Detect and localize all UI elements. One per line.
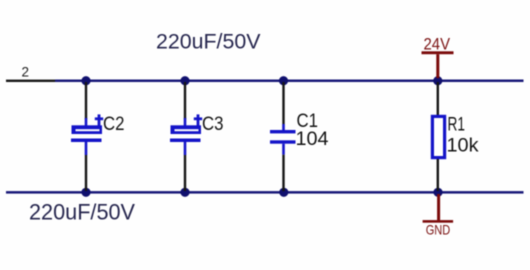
wire: C2 top pin stub (blue)	[85, 118, 88, 126]
wire: R1 top lead (black)	[437, 82, 439, 115]
node: top junction at C2	[81, 76, 90, 85]
GND power bar	[423, 220, 454, 223]
wire: C1 bottom lead (black)	[282, 155, 284, 192]
C3 plus sign	[197, 114, 200, 126]
capacitor C2	[71, 82, 125, 191]
node: top junction at R1 / 24V	[433, 76, 442, 85]
svg-text:GND: GND	[426, 221, 451, 237]
C1 top plate	[270, 130, 296, 133]
wire: C1 top pin stub (blue)	[282, 124, 285, 130]
wire: C3 top pin stub (blue)	[184, 118, 187, 126]
capacitor C3	[170, 82, 224, 191]
wire: C3 bottom lead (black)	[184, 155, 186, 191]
wire: C2 top lead (black)	[85, 82, 87, 119]
svg-text:220uF/50V: 220uF/50V	[156, 30, 261, 53]
resistor R1	[432, 82, 478, 191]
node: bottom junction at C3	[180, 188, 189, 197]
svg-text:C2: C2	[103, 113, 125, 135]
wire: C1 bottom pin stub (blue)	[282, 144, 285, 155]
wire: C1 top lead (black)	[282, 82, 284, 124]
C2 positive plate (rect with stripe)	[72, 125, 103, 134]
svg-text:R1: R1	[448, 114, 466, 136]
C1 bottom plate	[270, 140, 296, 143]
wire: 24V lead (dark red)	[436, 54, 439, 78]
svg-text:104: 104	[296, 128, 329, 150]
node: bottom junction at C1	[279, 188, 288, 197]
wire: top bus (navy)	[55, 80, 524, 83]
node: top junction at C1	[279, 76, 288, 85]
wire: C3 bottom pin stub (blue)	[184, 142, 187, 155]
svg-text:10k: 10k	[447, 135, 479, 157]
node: bottom junction at C2	[81, 188, 90, 197]
wire: left pin segment (black)	[6, 80, 56, 82]
24V power bar	[422, 51, 454, 54]
svg-text:24V: 24V	[424, 35, 451, 54]
wire: C3 top lead (black)	[184, 82, 186, 119]
svg-text:C3: C3	[202, 113, 224, 135]
node: bottom junction at R1 / GND	[433, 188, 442, 197]
svg-text:220uF/50V: 220uF/50V	[29, 200, 135, 225]
capacitor C1	[270, 82, 329, 191]
C3 negative plate bar	[170, 139, 201, 143]
node: top junction at C3	[180, 76, 189, 85]
C2 plus sign	[98, 114, 101, 126]
C2 negative plate bar	[71, 139, 102, 143]
wire: C2 bottom lead (black)	[85, 155, 87, 191]
R1 body rectangle	[432, 116, 444, 157]
wire: C2 bottom pin stub (blue)	[85, 142, 88, 155]
wire: R1 bottom lead (black)	[437, 159, 439, 191]
power port GND	[423, 194, 454, 237]
svg-text:2: 2	[22, 65, 30, 80]
wire: bottom bus (navy)	[6, 191, 524, 194]
power port 24V	[422, 35, 454, 79]
C3 positive plate (rect with stripe)	[171, 125, 202, 134]
wire: GND lead (dark red)	[437, 194, 440, 220]
